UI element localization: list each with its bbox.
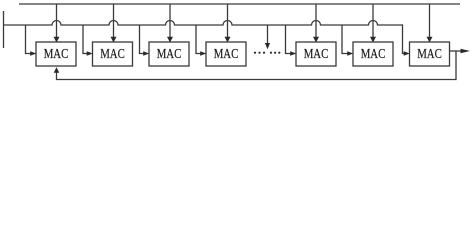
- wire MAC7 output line: [450, 50, 462, 52]
- ellipsis dots right group: [270, 52, 272, 54]
- MAC block 7: [410, 42, 450, 66]
- wire tap to MAC1 left: [26, 25, 31, 54]
- arrowhead into MAC1 top: [54, 37, 60, 43]
- arrowhead into MAC5 top: [313, 37, 319, 43]
- arrowhead into MAC6 top: [370, 37, 376, 43]
- arrowhead continuation down in dots gap: [265, 43, 270, 49]
- wire top drop 2: [113, 4, 115, 38]
- arrowhead into MAC4 left: [200, 51, 206, 55]
- svg-text:MAC: MAC: [214, 46, 239, 61]
- wire top drop 1: [56, 4, 58, 38]
- label MAC 6: [361, 46, 386, 61]
- svg-text:MAC: MAC: [304, 46, 329, 61]
- svg-text:MAC: MAC: [417, 46, 442, 61]
- arrowhead into MAC1 left: [30, 51, 36, 55]
- wire continuation drop in dots gap: [267, 25, 269, 44]
- wire second bus end turn to MAC7 left: [403, 24, 405, 53]
- label MAC 5: [304, 46, 329, 61]
- label MAC 1: [44, 46, 69, 61]
- label MAC 2: [100, 46, 125, 61]
- label MAC 7: [417, 46, 442, 61]
- arrowhead into MAC3 left: [143, 51, 149, 55]
- arrowhead into MAC7 left: [404, 51, 410, 55]
- wire top drop 5: [315, 4, 317, 38]
- wire second bus with hops: [4, 21, 403, 25]
- arrowhead into MAC2 left: [87, 51, 93, 55]
- wire tap to MAC4 left: [196, 25, 201, 54]
- wire top drop 4: [227, 4, 229, 38]
- MAC block 2: [93, 42, 133, 66]
- arrowhead into MAC6 left: [347, 51, 353, 55]
- MAC block 1: [36, 42, 76, 66]
- arrowhead feedback up into MAC1 bottom: [54, 67, 60, 73]
- wire top drop 7: [429, 4, 431, 38]
- MAC block 6: [353, 42, 393, 66]
- MAC block 4: [206, 42, 246, 66]
- svg-text:MAC: MAC: [157, 46, 182, 61]
- wire feedback: down from output T, along bottom, to MAC1: [57, 51, 457, 80]
- wire tap to MAC2 left: [83, 25, 87, 54]
- svg-text:MAC: MAC: [361, 46, 386, 61]
- arrowhead into MAC3 top: [167, 37, 173, 43]
- wire left input stub: [3, 11, 5, 48]
- arrowhead into MAC5 left: [290, 51, 296, 55]
- wire tap to MAC3 left: [140, 25, 144, 54]
- wire top drop 3: [169, 4, 171, 38]
- wire tap to MAC5 left: [286, 25, 291, 54]
- wire top input bus: [19, 3, 460, 5]
- ellipsis dots left group: [254, 52, 256, 54]
- wire tap to MAC6 left: [342, 25, 348, 54]
- MAC block 5: [296, 42, 336, 66]
- label MAC 4: [214, 46, 239, 61]
- label MAC 3: [157, 46, 182, 61]
- arrowhead output right: [461, 49, 471, 53]
- arrowhead into MAC7 top: [427, 37, 433, 43]
- svg-text:MAC: MAC: [44, 46, 69, 61]
- arrowhead into MAC2 top: [111, 37, 117, 43]
- MAC block 3: [149, 42, 189, 66]
- wire top drop 6: [372, 4, 374, 38]
- svg-text:MAC: MAC: [100, 46, 125, 61]
- arrowhead into MAC4 top: [225, 37, 231, 43]
